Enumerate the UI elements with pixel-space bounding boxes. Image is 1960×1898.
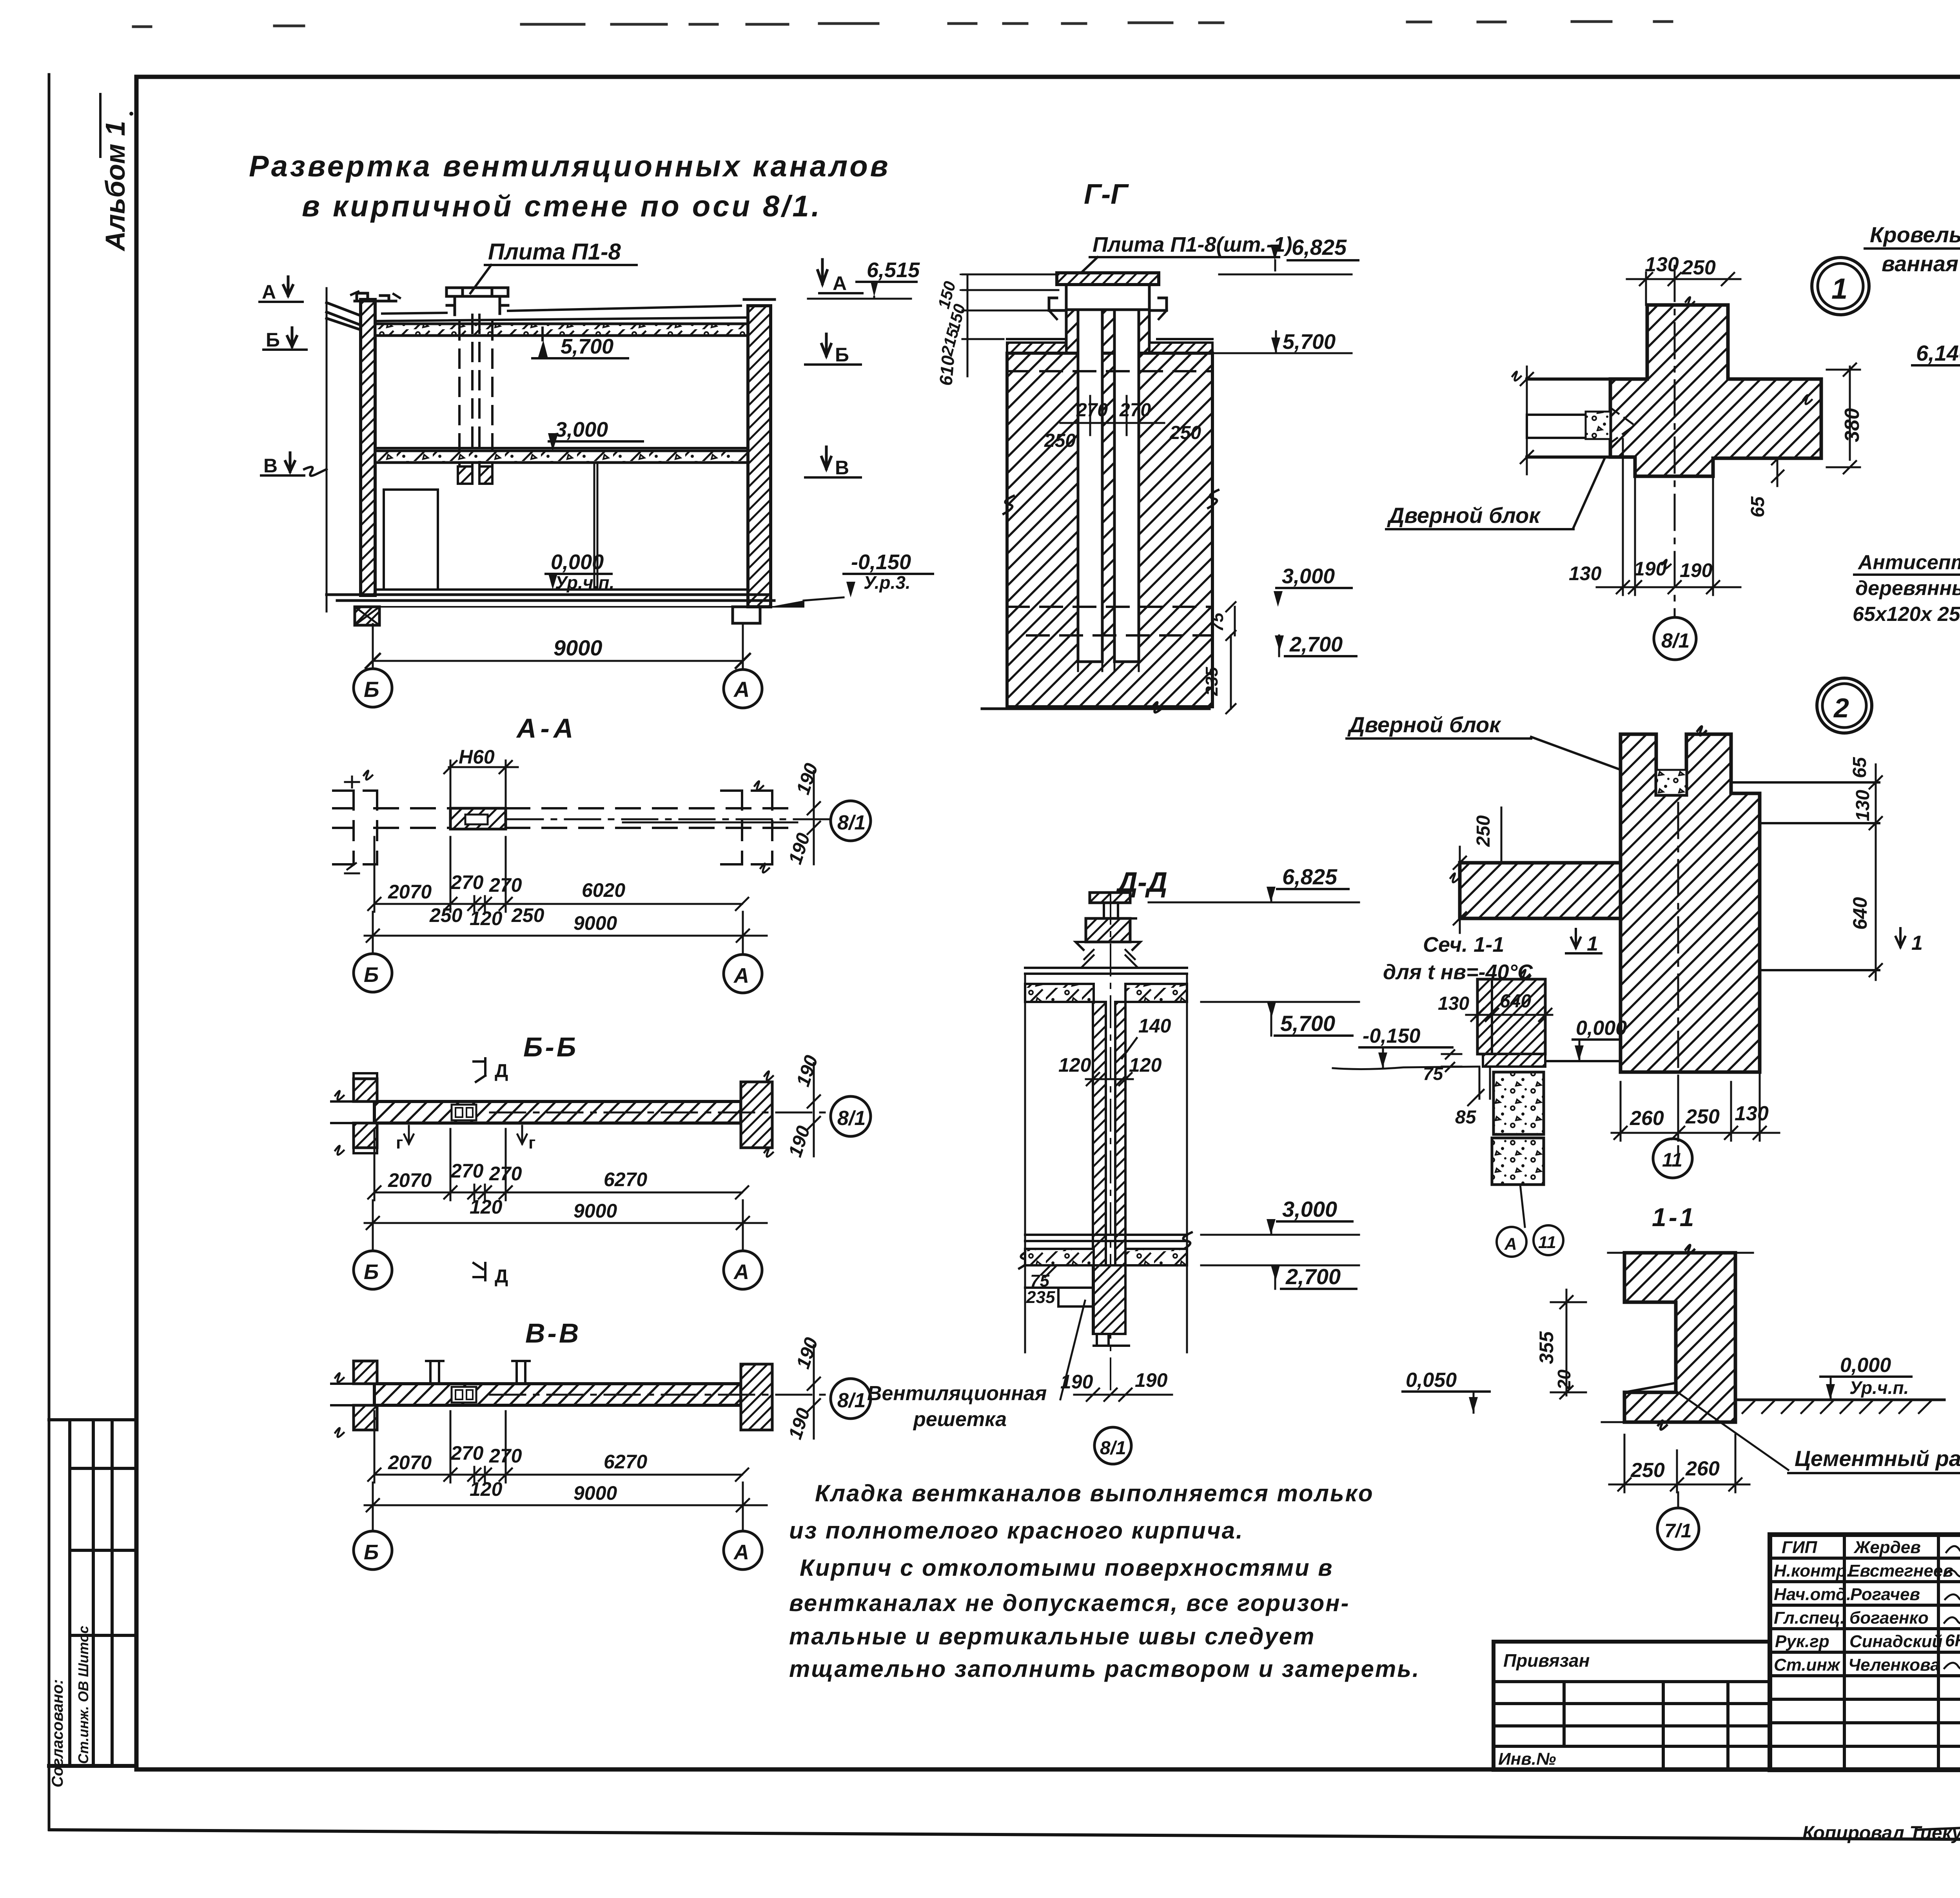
svg-text:250: 250	[1630, 1459, 1665, 1482]
vent stubs on top	[426, 1361, 443, 1384]
svg-text:из полнотелого красного кир: из полнотелого красного кирпича.	[789, 1517, 1244, 1544]
right V marker	[822, 447, 831, 469]
svg-text:1: 1	[1911, 932, 1923, 954]
right levels	[1201, 352, 1352, 354]
svg-text:6,825: 6,825	[1282, 864, 1338, 889]
svg-text:В: В	[263, 455, 278, 477]
g marks	[404, 1126, 414, 1144]
65 step dim	[1777, 458, 1779, 486]
svg-text:ванная сталь: ванная сталь	[1882, 251, 1960, 276]
svg-text:Б: Б	[364, 677, 379, 702]
svg-text:260: 260	[1630, 1107, 1664, 1130]
album margin text	[100, 94, 131, 252]
svg-text:6,515: 6,515	[867, 258, 920, 282]
top cap	[1090, 893, 1130, 903]
svg-text:8/1: 8/1	[837, 811, 866, 834]
svg-text:Альбом 1: Альбом 1	[100, 121, 131, 252]
right block	[741, 1082, 772, 1148]
svg-text:120: 120	[470, 1478, 503, 1500]
svg-text:Н.контр.: Н.контр.	[1774, 1561, 1851, 1580]
svg-text:2070: 2070	[388, 1452, 432, 1473]
dims	[374, 1474, 742, 1476]
detail 2: wall junction plan lower	[1333, 678, 1923, 1257]
svg-text:Б: Б	[266, 329, 280, 351]
svg-text:А: А	[1504, 1234, 1517, 1254]
duct stubs hatched	[458, 466, 472, 484]
svg-text:-0,150: -0,150	[1363, 1025, 1421, 1047]
svg-text:380: 380	[1841, 408, 1864, 442]
svg-text:в кирпичной стене по оси: в кирпичной стене по оси 8/1.	[302, 190, 822, 223]
svg-text:9000: 9000	[554, 635, 603, 660]
right block	[741, 1364, 772, 1430]
svg-text:6НС,: 6НС,	[1945, 1631, 1960, 1650]
svg-text:3,000: 3,000	[1282, 1197, 1337, 1221]
dims row2 9000	[365, 935, 767, 937]
handwritten note bottom center	[789, 1480, 1420, 1682]
svg-text:270: 270	[450, 1442, 484, 1464]
plan strip V-V	[331, 1318, 871, 1570]
svg-text:250: 250	[1044, 430, 1076, 451]
plan strip A-A	[333, 713, 871, 993]
svg-text:Цементный раствор м25: Цементный раствор м25	[1795, 1446, 1960, 1471]
svg-text:Евстегнеев: Евстегнеев	[1848, 1561, 1953, 1580]
detail 1: wall junction plan	[1386, 253, 1869, 660]
svg-text:270: 270	[489, 1163, 522, 1185]
svg-text:Плита П1-8: Плита П1-8	[488, 239, 621, 265]
svg-text:9000: 9000	[573, 1482, 617, 1504]
svg-text:235: 235	[1202, 667, 1221, 696]
main bar with door slot	[1621, 734, 1760, 1072]
ground lines	[375, 588, 748, 591]
left wall	[361, 299, 375, 595]
plan strip B-B	[331, 1032, 871, 1289]
svg-text:8/1: 8/1	[837, 1107, 866, 1130]
chimney body	[1007, 353, 1212, 707]
strip wall hatched	[374, 1101, 741, 1123]
svg-text:65х120х 250 через 780: 65х120х 250 через 780	[1853, 603, 1960, 626]
svg-text:Г-Г: Г-Г	[1084, 179, 1129, 210]
svg-text:190: 190	[785, 1123, 814, 1160]
partition	[593, 464, 595, 590]
ext lines	[1024, 974, 1026, 1352]
svg-text:Привязан: Привязан	[1503, 1650, 1590, 1671]
svg-text:решетка: решетка	[913, 1408, 1007, 1431]
left cross	[354, 1361, 377, 1384]
svg-text:2,700: 2,700	[1285, 1264, 1341, 1289]
axis	[1674, 266, 1676, 617]
axis line	[508, 818, 831, 820]
svg-text:Жердев: Жердев	[1853, 1538, 1921, 1557]
privyazan sub-table	[1494, 1640, 1770, 1644]
svg-text:270: 270	[450, 1160, 484, 1182]
svg-text:вентканалах не допускается,: вентканалах не допускается, все горизон-	[789, 1590, 1350, 1616]
pipe	[1093, 1002, 1106, 1334]
svg-text:215: 215	[937, 326, 962, 358]
plate block	[1086, 918, 1130, 942]
svg-text:3,000: 3,000	[555, 418, 608, 441]
strip wall hatched	[374, 1384, 741, 1405]
dashed duct lines	[459, 315, 492, 466]
grille	[1058, 1288, 1094, 1306]
small white box in strip	[452, 1387, 476, 1403]
svg-text:-0,150: -0,150	[851, 550, 911, 574]
roof slab	[375, 324, 748, 336]
main title	[249, 150, 891, 223]
right wall	[748, 306, 771, 607]
svg-text:120: 120	[470, 907, 503, 929]
svg-text:235: 235	[1026, 1288, 1055, 1307]
85 slot	[1479, 1067, 1481, 1099]
svg-text:богаенко: богаенко	[1849, 1608, 1929, 1628]
svg-text:6,140: 6,140	[1916, 341, 1960, 365]
svg-text:6,825: 6,825	[1292, 235, 1347, 259]
svg-text:250: 250	[1681, 256, 1716, 279]
svg-text:190: 190	[1135, 1369, 1168, 1391]
svg-text:Дверной блок: Дверной блок	[1347, 712, 1501, 737]
pier with notch	[1624, 1253, 1735, 1422]
bottom dims 250 260	[1609, 1484, 1749, 1486]
svg-text:130: 130	[1438, 993, 1469, 1014]
svg-text:250: 250	[1169, 423, 1201, 443]
svg-text:250: 250	[511, 904, 544, 926]
left arm door	[1527, 377, 1610, 381]
svg-text:Челенкова: Челенкова	[1848, 1655, 1940, 1675]
left parapet cap	[355, 293, 396, 301]
left cross	[354, 1073, 377, 1153]
circled 7/1	[1677, 1492, 1679, 1508]
svg-text:250: 250	[1473, 815, 1494, 847]
svg-text:190: 190	[785, 1406, 814, 1442]
chimney neck	[1066, 310, 1149, 355]
svg-text:5,700: 5,700	[561, 335, 613, 358]
small white box in strip	[452, 1105, 476, 1120]
svg-text:тальные и вертикальные швы: тальные и вертикальные швы следует	[789, 1623, 1315, 1649]
dims 355 20	[1566, 1290, 1568, 1395]
left canopy slope	[327, 303, 361, 316]
svg-text:11: 11	[1662, 1149, 1682, 1171]
svg-text:2070: 2070	[388, 1169, 432, 1191]
svg-text:Плита П1-8(шт.-1): Плита П1-8(шт.-1)	[1093, 233, 1292, 256]
svg-text:20: 20	[1554, 1369, 1574, 1390]
plate	[1057, 273, 1159, 285]
svg-text:А-А: А-А	[516, 713, 577, 744]
svg-text:1: 1	[1587, 933, 1598, 955]
below slab	[1025, 1287, 1094, 1289]
svg-text:Ст.инж: Ст.инж	[1774, 1655, 1841, 1675]
svg-text:270: 270	[489, 874, 522, 896]
concrete blocks	[1494, 1072, 1544, 1134]
svg-text:65: 65	[1748, 496, 1768, 517]
svg-text:Б: Б	[364, 963, 379, 987]
svg-text:Дверной блок: Дверной блок	[1387, 503, 1541, 528]
svg-text:А: А	[733, 1541, 749, 1564]
1 section marks	[1571, 929, 1581, 948]
svg-text:Нач.отд.: Нач.отд.	[1774, 1585, 1851, 1604]
vent plate on roof	[446, 288, 508, 315]
svg-text:А: А	[833, 272, 847, 294]
svg-text:640: 640	[1500, 991, 1531, 1012]
svg-text:Развертка вентиляционных кан: Развертка вентиляционных каналов	[249, 150, 891, 183]
dims row1	[374, 903, 742, 905]
bottom-left approval table	[49, 1420, 136, 1766]
svg-text:деревянные пробки: деревянные пробки	[1855, 577, 1960, 600]
svg-text:Копировал Тиекуз: Копировал Тиекуз	[1802, 1823, 1960, 1844]
detail 3: eave	[1853, 222, 1960, 711]
svg-text:Б: Б	[364, 1260, 379, 1284]
svg-text:260: 260	[1685, 1457, 1720, 1480]
side roof slabs	[1007, 338, 1066, 340]
svg-text:270: 270	[450, 871, 484, 893]
svg-text:Д: Д	[495, 1061, 508, 1081]
svg-text:190: 190	[793, 761, 822, 797]
svg-text:Рук.гр: Рук.гр	[1775, 1632, 1829, 1651]
svg-text:2070: 2070	[388, 881, 432, 903]
svg-text:11: 11	[1538, 1233, 1556, 1252]
cross body	[1610, 305, 1821, 476]
dashed ceiling line	[1007, 370, 1212, 372]
svg-text:130: 130	[1853, 790, 1873, 821]
svg-text:ГИП: ГИП	[1782, 1538, 1818, 1557]
svg-text:Н60: Н60	[459, 746, 495, 768]
svg-text:Сеч. 1-1: Сеч. 1-1	[1423, 933, 1504, 956]
svg-text:2: 2	[1833, 693, 1849, 723]
svg-text:7/1: 7/1	[1664, 1520, 1692, 1542]
svg-text:270: 270	[1076, 400, 1108, 421]
building cross-section (main)	[327, 288, 804, 708]
svg-text:тщательно заполнить растворо: тщательно заполнить раствором и затереть…	[789, 1656, 1420, 1682]
break squiggles	[1004, 496, 1014, 514]
svg-text:Ур.ч.п.: Ур.ч.п.	[1849, 1377, 1909, 1398]
svg-text:190: 190	[1634, 558, 1667, 580]
dim 9000	[373, 660, 743, 662]
sec 1-1 small pier	[1477, 979, 1545, 1054]
svg-text:А: А	[262, 281, 276, 303]
svg-text:610: 610	[935, 354, 958, 386]
lower slab	[1025, 1234, 1187, 1236]
circled 8/1	[831, 801, 871, 841]
pipe bottom	[1094, 1265, 1125, 1334]
paper edge scan dashes top	[129, 20, 1960, 116]
dashed wall edges	[374, 807, 450, 809]
svg-text:6270: 6270	[604, 1451, 647, 1473]
svg-text:Синадский: Синадский	[1849, 1632, 1943, 1651]
svg-text:120: 120	[1129, 1054, 1162, 1076]
svg-text:г: г	[396, 1133, 403, 1152]
svg-text:355: 355	[1535, 1331, 1557, 1364]
ground hatch right	[1735, 1399, 1944, 1401]
svg-text:130: 130	[1735, 1102, 1769, 1125]
break squiggles	[1019, 1250, 1029, 1268]
section 1-1 (window jamb plan)	[1403, 1203, 1960, 1550]
roof slabs	[1025, 967, 1187, 969]
svg-text:А: А	[733, 677, 750, 702]
svg-text:Кровельная оцинко-: Кровельная оцинко-	[1870, 222, 1960, 247]
right arm dims	[1849, 367, 1851, 460]
section G-G (chimney vertical cut)	[934, 179, 1358, 713]
svg-text:9000: 9000	[573, 912, 617, 934]
svg-text:Б-Б: Б-Б	[523, 1032, 578, 1062]
svg-text:130: 130	[1569, 563, 1602, 584]
svg-text:0,050: 0,050	[1406, 1369, 1457, 1392]
svg-text:270: 270	[489, 1445, 522, 1467]
svg-text:1: 1	[1831, 272, 1847, 305]
circled 8/1	[1654, 617, 1696, 660]
bottom ground	[982, 708, 1209, 710]
svg-text:75: 75	[1208, 613, 1227, 632]
svg-text:85: 85	[1455, 1107, 1477, 1128]
left arm	[1460, 863, 1621, 918]
svg-text:А: А	[733, 1260, 749, 1284]
mid dims 270 270 250 250	[1060, 422, 1164, 424]
svg-text:5,700: 5,700	[1280, 1011, 1335, 1036]
right ledge lines	[1731, 781, 1879, 784]
axis + circle 11	[1677, 803, 1679, 1152]
svg-text:8/1: 8/1	[837, 1389, 866, 1412]
left dim stack	[967, 274, 969, 376]
bottom dims det2	[1612, 1132, 1779, 1134]
axis	[490, 1112, 831, 1114]
svg-text:190: 190	[1680, 559, 1713, 581]
svg-text:640: 640	[1849, 897, 1871, 930]
svg-text:5,700: 5,700	[1283, 330, 1336, 354]
svg-text:2,700: 2,700	[1289, 633, 1343, 656]
svg-text:3,000: 3,000	[1282, 564, 1335, 588]
svg-text:250: 250	[429, 904, 463, 926]
svg-text:0,000: 0,000	[551, 550, 604, 574]
left axis line	[326, 288, 328, 611]
svg-text:6270: 6270	[604, 1169, 647, 1190]
svg-text:120: 120	[1058, 1054, 1091, 1076]
channels white	[1078, 310, 1102, 662]
svg-text:Б: Б	[835, 344, 849, 366]
mid floor slab	[375, 451, 748, 463]
svg-text:В: В	[835, 457, 849, 479]
svg-text:Инв.№: Инв.№	[1498, 1749, 1556, 1769]
svg-text:190: 190	[785, 831, 814, 867]
svg-text:Согласовано:: Согласовано:	[49, 1679, 66, 1787]
axis	[490, 1394, 831, 1396]
svg-text:190: 190	[793, 1053, 822, 1089]
title block	[1494, 1535, 1960, 1770]
svg-text:В-В: В-В	[525, 1318, 581, 1348]
svg-text:Б: Б	[364, 1541, 379, 1564]
svg-text:Гл.спец.: Гл.спец.	[1774, 1608, 1845, 1628]
axis circles	[354, 669, 392, 707]
svg-text:65: 65	[1849, 757, 1870, 778]
svg-text:0,000: 0,000	[1576, 1017, 1627, 1040]
svg-text:120: 120	[470, 1196, 503, 1218]
right end dashed	[721, 791, 772, 864]
svg-text:8/1: 8/1	[1661, 630, 1690, 652]
signatures squiggles	[1944, 1542, 1960, 1669]
svg-text:Вентиляционная: Вентиляционная	[867, 1382, 1047, 1405]
door opening	[384, 490, 438, 590]
svg-text:6020: 6020	[582, 879, 625, 901]
svg-text:1-1: 1-1	[1652, 1203, 1696, 1232]
bottom dims	[1074, 1394, 1172, 1396]
mortar band	[1483, 1054, 1545, 1067]
svg-text:9000: 9000	[573, 1200, 617, 1222]
right B marker	[822, 334, 831, 356]
svg-text:Д: Д	[495, 1266, 508, 1287]
left cross dashed	[333, 791, 377, 864]
svg-text:Ст.инж. ОВ Шитос: Ст.инж. ОВ Шитос	[75, 1626, 91, 1764]
svg-text:250: 250	[1685, 1105, 1720, 1128]
svg-text:А: А	[733, 964, 749, 987]
dims	[374, 1192, 742, 1194]
vent block	[450, 808, 506, 829]
svg-text:140: 140	[1138, 1015, 1171, 1037]
svg-text:190: 190	[793, 1335, 822, 1372]
svg-text:Рогачев: Рогачев	[1850, 1585, 1920, 1604]
svg-text:г: г	[528, 1133, 535, 1152]
svg-text:270: 270	[1119, 400, 1151, 421]
section D-D (chimney)	[858, 864, 1359, 1464]
svg-text:8/1: 8/1	[1100, 1438, 1126, 1459]
svg-text:Кладка вентканалов выполняет: Кладка вентканалов выполняется только	[815, 1480, 1374, 1506]
svg-text:Кирпич с отколотыми поверхн: Кирпич с отколотыми поверхностями в	[800, 1555, 1334, 1581]
svg-text:У.р.3.: У.р.3.	[864, 572, 911, 593]
foundation blocks	[355, 607, 379, 625]
svg-text:Антисептированные: Антисептированные	[1857, 551, 1960, 574]
circles A and 11 small	[1497, 1227, 1526, 1257]
svg-text:0,000: 0,000	[1840, 1354, 1891, 1377]
svg-text:75: 75	[1423, 1063, 1444, 1084]
svg-text:Ур.ч.п.: Ур.ч.п.	[555, 572, 614, 593]
